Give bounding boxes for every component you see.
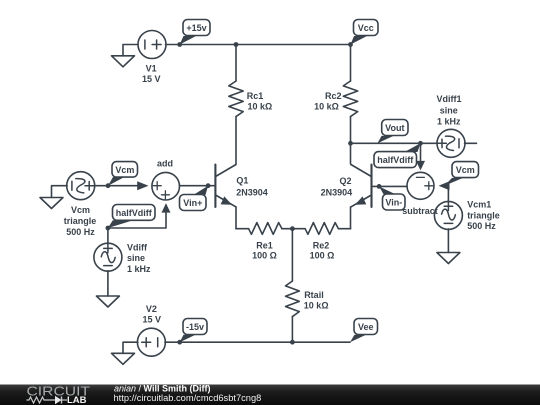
svg-text:subtract: subtract <box>402 206 438 216</box>
svg-text:2N3904: 2N3904 <box>321 188 353 198</box>
wire bottom rail <box>165 341 350 343</box>
ground (Vcm) <box>40 198 63 209</box>
svg-text:100 Ω: 100 Ω <box>252 251 277 261</box>
svg-text:Q1: Q1 <box>236 176 248 186</box>
svg-text:100 Ω: 100 Ω <box>310 251 335 261</box>
svg-text:triangle: triangle <box>467 211 500 221</box>
arrowhead into add left input <box>137 181 148 190</box>
op-amp style summer add U1 <box>152 172 180 200</box>
wire V2 to ground <box>123 342 138 353</box>
svg-text:2N3904: 2N3904 <box>236 188 268 198</box>
svg-text:http://circuitlab.com/cmcd6sbt: http://circuitlab.com/cmcd6sbt7cng8 <box>114 393 262 403</box>
svg-text:Rc1: Rc1 <box>247 91 264 101</box>
svg-text:-15v: -15v <box>186 322 204 332</box>
wire V1 negative to ground <box>123 45 138 56</box>
junction dot tail node <box>290 226 295 231</box>
resistor Rtail <box>286 229 300 343</box>
wire stub right of Vdiff1 <box>465 142 477 144</box>
node flag Vcm (left) <box>108 162 138 186</box>
svg-text:sine: sine <box>440 105 458 115</box>
svg-text:Rc2: Rc2 <box>325 91 342 101</box>
voltage source V1 <box>138 31 166 59</box>
svg-text:Q2: Q2 <box>339 176 351 186</box>
node flag Vin+ <box>180 186 209 211</box>
svg-text:Rtail: Rtail <box>304 290 324 300</box>
node flag Vin- <box>379 186 405 210</box>
junction dot halfVdiff right node <box>418 141 423 146</box>
node flag Vcm (right) <box>445 162 479 186</box>
node flag +15v <box>180 20 210 45</box>
svg-text:LAB: LAB <box>67 395 87 405</box>
junction dot +15v node <box>177 42 182 47</box>
arrowhead into subtract right input <box>439 181 450 190</box>
wire Vdiff top to halfVdiff node <box>107 228 109 244</box>
junction dot Q2 collector node <box>348 141 353 146</box>
wire Vout rail <box>351 142 438 144</box>
svg-text:triangle: triangle <box>64 216 97 226</box>
wire halfVdiff node to add bottom <box>108 205 166 228</box>
voltage source Vcm (triangle) <box>67 172 95 200</box>
svg-text:10 kΩ: 10 kΩ <box>304 301 329 311</box>
svg-text:Vin-: Vin- <box>385 197 402 207</box>
arrowhead into add bottom input <box>162 203 171 212</box>
junction dot Rc1 top <box>234 42 239 47</box>
ground (Vdiff) <box>96 296 119 307</box>
junction dot Rtail bottom <box>290 340 295 345</box>
svg-text:1 kHz: 1 kHz <box>437 116 461 126</box>
CircuitLab logo resistor-diode glyph <box>27 397 68 404</box>
node flag Vee <box>350 319 378 343</box>
transistor Q1 <box>215 165 236 208</box>
bottom banner <box>0 385 540 405</box>
svg-text:Vdiff1: Vdiff1 <box>436 94 461 104</box>
wire Vcc corner down to Rc2 <box>350 45 352 82</box>
voltage source V2 <box>137 328 165 356</box>
junction dot -15v node <box>177 340 182 345</box>
wire halfVdiff node down to subtract <box>420 143 422 165</box>
op-amp style summer subtract U2 <box>407 172 434 199</box>
svg-text:Vcm: Vcm <box>115 165 134 175</box>
svg-text:1 kHz: 1 kHz <box>127 264 151 274</box>
ground (V1) <box>112 56 135 67</box>
svg-text:Re2: Re2 <box>313 240 330 250</box>
resistor Rc1 <box>229 45 243 165</box>
svg-text:V1: V1 <box>146 64 157 74</box>
junction dot Vin- node <box>377 184 382 189</box>
junction dot Vcc corner <box>348 42 353 47</box>
junction dot Vcm node <box>106 183 111 188</box>
svg-text:500 Hz: 500 Hz <box>66 227 95 237</box>
wire subtract output to Q2 base <box>372 185 408 187</box>
wire Vcm1 to subtract right input <box>441 186 448 203</box>
wire top rail V1 to Vcc corner <box>166 44 351 46</box>
junction dot Vin+ node <box>206 183 211 188</box>
resistor Rc2 <box>343 81 357 143</box>
svg-text:halfVdiff: halfVdiff <box>116 208 153 218</box>
node flag halfVdiff (right) <box>374 143 421 167</box>
svg-text:Vee: Vee <box>358 322 374 332</box>
node flag Vout <box>378 120 409 144</box>
ground (V2) <box>112 353 135 364</box>
voltage source Vcm1 (triangle) <box>434 201 462 229</box>
arrowhead into subtract top input <box>416 161 425 171</box>
svg-text:Vdiff: Vdiff <box>127 242 148 252</box>
wire Q2 collector up to Rc2 <box>350 143 352 164</box>
svg-text:V2: V2 <box>146 304 157 314</box>
svg-text:Vin+: Vin+ <box>183 198 202 208</box>
wire Vcm negative to ground <box>52 186 68 198</box>
svg-text:Re1: Re1 <box>256 240 273 250</box>
junction dot halfVdiff node <box>106 226 111 231</box>
svg-text:500 Hz: 500 Hz <box>467 221 496 231</box>
voltage source Vdiff (sine) <box>94 243 122 271</box>
svg-text:Vcm1: Vcm1 <box>467 200 491 210</box>
node flag -15v <box>180 319 207 343</box>
wire Vdiff bottom to ground <box>107 271 109 296</box>
svg-text:Vcc: Vcc <box>358 23 374 33</box>
svg-text:15 V: 15 V <box>143 314 162 324</box>
resistor Re1 <box>236 223 292 235</box>
transistor Q2 <box>351 165 372 208</box>
svg-text:Vcm: Vcm <box>456 165 475 175</box>
wire Vcm to add <box>94 185 146 187</box>
wire Vcm1 bottom to ground <box>447 229 449 253</box>
svg-text:10 kΩ: 10 kΩ <box>248 102 273 112</box>
resistor Re2 <box>292 223 350 235</box>
svg-text:Vcm: Vcm <box>71 205 90 215</box>
svg-text:10 kΩ: 10 kΩ <box>314 102 339 112</box>
svg-text:sine: sine <box>127 253 145 263</box>
ground (Vcm1) <box>437 253 460 264</box>
svg-text:+15v: +15v <box>186 23 206 33</box>
svg-text:add: add <box>157 158 173 168</box>
node flag halfVdiff (left) <box>108 205 155 229</box>
wire Q1 emitter down <box>235 207 237 229</box>
node flag Vcc <box>351 20 379 45</box>
svg-text:15 V: 15 V <box>142 74 161 84</box>
wire add output to Q1 base <box>180 185 216 187</box>
svg-text:halfVdiff: halfVdiff <box>377 155 414 165</box>
wire Q2 emitter down to Re2 <box>350 207 352 229</box>
svg-text:Vout: Vout <box>385 123 404 133</box>
voltage source Vdiff1 (sine) <box>437 129 465 157</box>
